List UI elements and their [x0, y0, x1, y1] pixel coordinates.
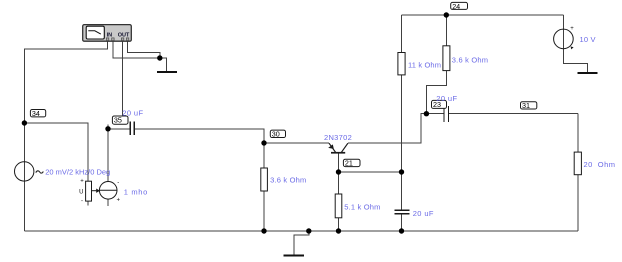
svg-text:+: +: [117, 198, 121, 204]
svg-text:-: -: [117, 180, 119, 186]
svg-text:21: 21: [345, 159, 353, 168]
svg-text:IN: IN: [107, 33, 113, 39]
svg-text:U: U: [79, 190, 83, 196]
svg-text:31: 31: [522, 101, 530, 110]
svg-text:2N3702: 2N3702: [324, 133, 352, 142]
svg-text:11 k Ohm: 11 k Ohm: [408, 61, 441, 70]
svg-text:10 V: 10 V: [580, 35, 596, 44]
svg-text:5.1 k Ohm: 5.1 k Ohm: [344, 202, 380, 211]
svg-text:20 Ohm: 20 Ohm: [584, 160, 616, 169]
svg-text:20 uF: 20 uF: [122, 109, 143, 118]
svg-text:20 uF: 20 uF: [413, 209, 434, 218]
svg-text:3.6 k Ohm: 3.6 k Ohm: [270, 176, 306, 185]
svg-text:+: +: [570, 26, 574, 32]
svg-text:30: 30: [272, 130, 280, 139]
svg-text:1 mho: 1 mho: [124, 188, 148, 197]
svg-text:-: -: [81, 199, 83, 205]
svg-text:20 mV/2 kHz/0 Deg: 20 mV/2 kHz/0 Deg: [45, 168, 110, 177]
svg-text:24: 24: [452, 2, 460, 11]
svg-text:34: 34: [32, 109, 40, 118]
svg-text:OUT: OUT: [118, 33, 130, 39]
svg-text:35: 35: [114, 116, 122, 125]
svg-text:20 uF: 20 uF: [436, 94, 457, 103]
svg-text:+: +: [80, 179, 84, 185]
svg-text:3.6 k Ohm: 3.6 k Ohm: [452, 55, 488, 64]
